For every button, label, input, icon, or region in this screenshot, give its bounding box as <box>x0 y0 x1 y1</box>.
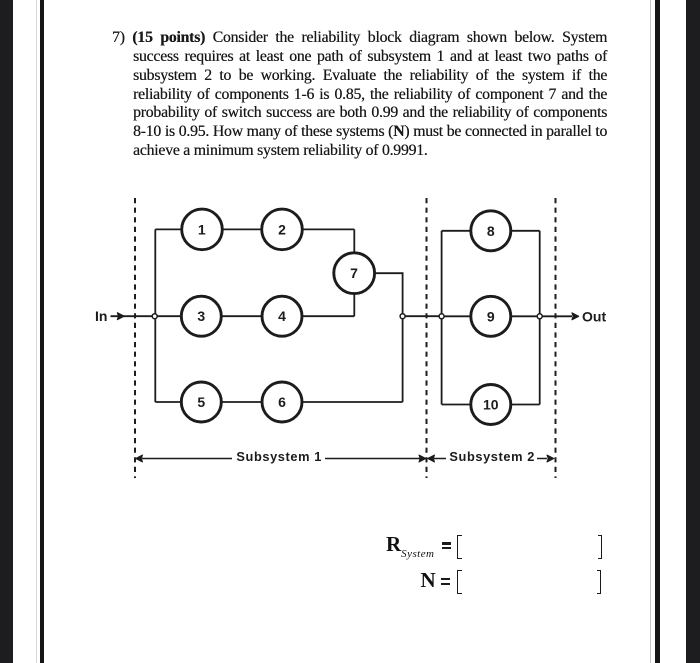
equals sign row 1 <box>442 542 452 544</box>
Out arrowhead <box>572 313 579 320</box>
problem statement paragraph <box>112 29 607 161</box>
component 6 <box>262 382 302 422</box>
left faint rule <box>36 0 37 663</box>
svg-text:1: 1 <box>198 221 206 237</box>
svg-text:2: 2 <box>278 221 286 237</box>
wire branch 10 <box>442 404 540 406</box>
wire bottom branch 5-6 <box>155 401 402 403</box>
right bracket row 1 <box>598 535 602 559</box>
formula N <box>421 568 436 593</box>
component 4 <box>262 296 302 336</box>
wire middle branch 3-4 <box>155 315 355 317</box>
wire component 7 output <box>374 273 402 402</box>
span arrowhead right at subsystem 1 <box>419 455 426 462</box>
subsystem 1/2 middle dashed boundary <box>426 198 428 478</box>
subsystem 1 left dashed boundary <box>134 198 136 478</box>
node A input junction <box>152 314 157 319</box>
right thin rule <box>655 0 660 663</box>
wire node B to node C <box>403 315 442 317</box>
left bracket row 2 <box>457 570 462 594</box>
wire branch 9 <box>442 315 540 317</box>
svg-text:Out: Out <box>582 308 606 324</box>
right black margin bar <box>686 0 700 663</box>
wire subsystem 2 span line left <box>434 458 446 460</box>
wire junction column into component 7 <box>353 229 355 316</box>
svg-text:3: 3 <box>197 308 205 324</box>
subsystem 2 right dashed boundary <box>555 198 557 478</box>
node C subsystem 2 input junction <box>439 314 444 319</box>
svg-text:In: In <box>95 308 107 324</box>
wire subsystem 2 span line right <box>537 458 547 460</box>
left bracket row 1 <box>457 535 462 559</box>
wire right bus of subsystem 2 <box>539 231 541 405</box>
span arrowhead left at subsystem 2 <box>428 455 435 462</box>
component 2 <box>262 209 303 250</box>
svg-text:10: 10 <box>483 397 499 413</box>
wire top branch 1-2 <box>155 228 354 230</box>
node D subsystem 2 output junction <box>537 314 542 319</box>
left thin rule <box>40 0 45 663</box>
svg-text:Subsystem 2: Subsystem 2 <box>449 449 535 464</box>
right bracket row 2 <box>597 570 601 594</box>
svg-text:7: 7 <box>350 265 358 281</box>
node B subsystem 1 output junction <box>400 314 405 319</box>
component 7 <box>334 253 375 294</box>
svg-text:4: 4 <box>278 308 286 324</box>
left black margin bar <box>0 0 13 663</box>
component 5 <box>181 382 221 422</box>
wire subsystem 1 span line left <box>142 458 232 460</box>
component 9 <box>471 296 511 336</box>
svg-text:5: 5 <box>197 394 205 410</box>
wire left bus of subsystem 1 <box>154 229 156 402</box>
wire node D to Out <box>540 315 572 317</box>
span arrowhead right at subsystem 2 <box>547 455 554 462</box>
component 8 <box>471 211 511 251</box>
equals sign row 2 <box>441 578 451 580</box>
In arrowhead <box>117 313 124 320</box>
component 3 <box>181 296 221 336</box>
wire left bus of subsystem 2 <box>441 231 443 405</box>
component 10 <box>471 385 511 425</box>
wire branch 8 <box>442 230 540 232</box>
component 1 <box>182 209 223 250</box>
wire subsystem 1 span line right <box>325 458 420 460</box>
span arrowhead left at subsystem 1 <box>136 455 143 462</box>
svg-text:8: 8 <box>487 223 495 239</box>
svg-text:Subsystem 1: Subsystem 1 <box>236 449 322 464</box>
right faint rule <box>650 0 652 663</box>
svg-text:9: 9 <box>487 308 495 324</box>
svg-text:6: 6 <box>278 394 286 410</box>
formula R System <box>386 532 434 557</box>
wire In to node A <box>111 315 153 317</box>
